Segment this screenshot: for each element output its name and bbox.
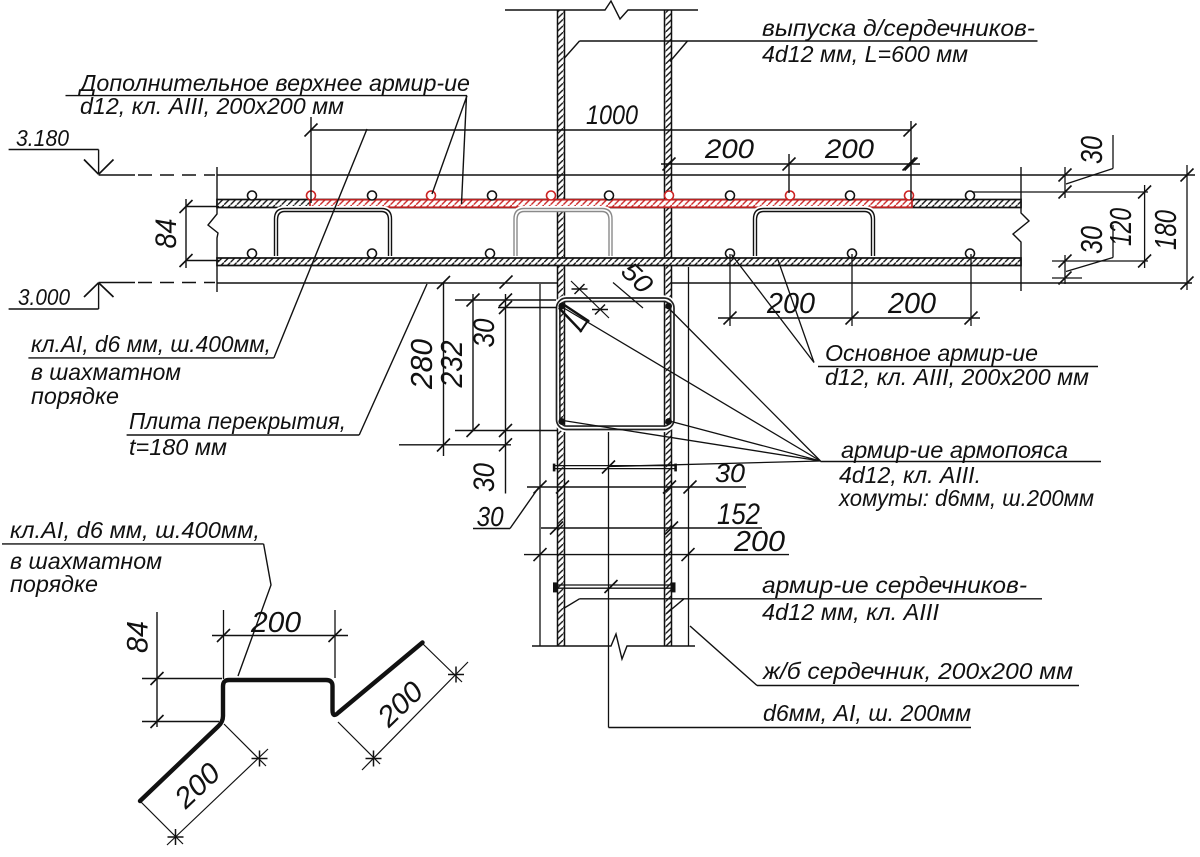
svg-text:200: 200	[250, 607, 301, 639]
svg-text:в шахматном: в шахматном	[31, 359, 181, 385]
svg-text:кл.AI, d6 мм, ш.400мм,: кл.AI, d6 мм, ш.400мм,	[10, 517, 260, 543]
svg-text:200: 200	[704, 134, 754, 164]
svg-text:84: 84	[122, 621, 155, 653]
svg-text:кл.AI, d6 мм, ш.400мм,: кл.AI, d6 мм, ш.400мм,	[31, 331, 271, 357]
svg-text:выпуска д/сердечников-: выпуска д/сердечников-	[762, 15, 1035, 41]
svg-text:3.180: 3.180	[16, 125, 69, 151]
svg-text:t=180 мм: t=180 мм	[129, 434, 227, 460]
svg-text:232: 232	[434, 341, 469, 389]
svg-text:4d12 мм, L=600 мм: 4d12 мм, L=600 мм	[762, 41, 968, 67]
svg-text:d12, кл. AIII, 200х200 мм: d12, кл. AIII, 200х200 мм	[80, 93, 344, 119]
svg-text:хомуты: d6мм, ш.200мм: хомуты: d6мм, ш.200мм	[838, 485, 1094, 511]
svg-text:Плита перекрытия,: Плита перекрытия,	[129, 408, 346, 434]
svg-text:d6мм, AI, ш. 200мм: d6мм, AI, ш. 200мм	[763, 700, 971, 726]
svg-text:порядке: порядке	[10, 571, 98, 597]
svg-text:1000: 1000	[586, 100, 638, 130]
svg-text:30: 30	[477, 501, 504, 532]
svg-text:3.000: 3.000	[18, 284, 70, 310]
svg-text:84: 84	[150, 219, 183, 249]
svg-text:Основное армир-ие: Основное армир-ие	[825, 340, 1038, 366]
svg-text:ж/б сердечник, 200х200 мм: ж/б сердечник, 200х200 мм	[762, 658, 1073, 684]
svg-text:30: 30	[468, 463, 501, 492]
svg-text:120: 120	[1103, 208, 1138, 246]
svg-text:30: 30	[1074, 136, 1109, 164]
svg-text:d12, кл. AIII, 200х200 мм: d12, кл. AIII, 200х200 мм	[825, 364, 1089, 390]
svg-text:200: 200	[887, 288, 936, 320]
svg-text:4d12 мм, кл. AIII: 4d12 мм, кл. AIII	[762, 599, 939, 625]
svg-text:200: 200	[766, 288, 815, 320]
svg-text:армир-ие сердечников-: армир-ие сердечников-	[762, 572, 1027, 598]
svg-text:180: 180	[1148, 210, 1183, 250]
svg-text:порядке: порядке	[31, 383, 119, 409]
svg-text:30: 30	[468, 318, 501, 347]
svg-text:200: 200	[824, 134, 874, 164]
svg-text:армир-ие армопояса: армир-ие армопояса	[841, 437, 1068, 463]
svg-text:200: 200	[733, 526, 785, 558]
